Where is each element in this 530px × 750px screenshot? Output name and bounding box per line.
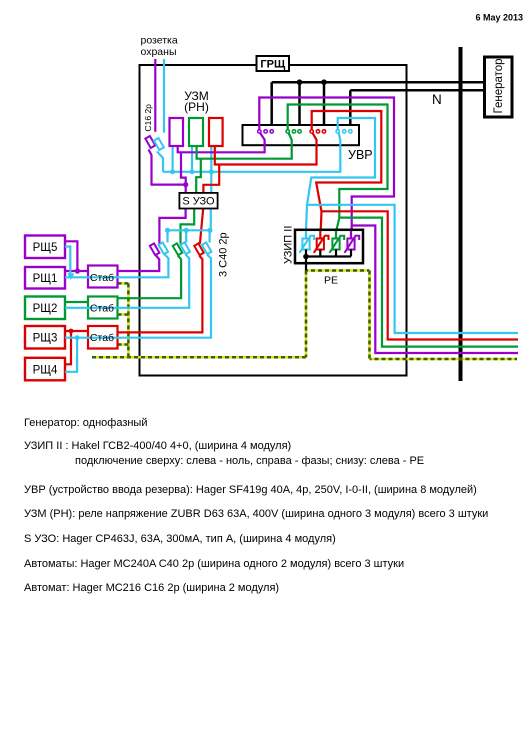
svg-text:6 May 2013: 6 May 2013 (476, 12, 524, 22)
junction dot N bus S УЗО (209, 169, 214, 174)
УВР switch group 2 (green) (286, 124, 301, 146)
wire: УЗИП internal PE bus (306, 255, 351, 257)
varistor 4 (purple) (345, 231, 360, 253)
svg-text:S УЗО: Hager CP463J, 63A, 300м: S УЗО: Hager CP463J, 63A, 300мА, тип A, … (24, 533, 336, 545)
svg-text:Стаб: Стаб (90, 332, 114, 344)
svg-text:Автоматы: Hager MC240A C40 2р: Автоматы: Hager MC240A C40 2р (ширина од… (24, 558, 404, 570)
wire: cyan N bus 2 (166, 229, 211, 231)
wire: green branch to right bundle (339, 218, 518, 347)
svg-text:Генератор: однофазный: Генератор: однофазный (24, 417, 148, 429)
varistor 1 (cyan) (300, 231, 315, 253)
wire: red phase loop УВР top (312, 111, 382, 230)
box S УЗО (179, 193, 217, 209)
wire: S УЗО green output to C40 no.2 (181, 209, 195, 244)
wire: cyan N loop УВР top (306, 118, 375, 230)
wire: varistor1 stub (305, 250, 307, 257)
junction dot N bus2 no.2 (184, 228, 189, 233)
УВР switch group 3 (red) (310, 124, 326, 146)
wire: S УЗО red output to C40 no.3 (200, 209, 203, 244)
svg-text:РЩ4: РЩ4 (33, 364, 58, 376)
wire: PE stub to Стаб1 (118, 282, 129, 285)
box РЩ1 (25, 267, 65, 289)
breaker C40 no.2 cyan pole (180, 242, 190, 254)
wire: S УЗО cyan output to N bus 2 (210, 209, 212, 231)
wire: РЩ3 red to Стаб3 (65, 330, 88, 332)
box Генератор (485, 57, 513, 117)
wire: C40 no.1 cyan out across Стаб1 to РЩ1 (65, 255, 168, 278)
wire: РЩ2 green to Стаб2 (65, 301, 88, 303)
arrow head РЩ5 cyan onto РЩ1 N wire (67, 273, 74, 279)
junction dot N bus УЗМ2 (190, 169, 195, 174)
wire: УЗМ3 N lead and S УЗО N drop (210, 146, 212, 193)
svg-text:УВР: УВР (348, 148, 373, 162)
wire: C40 no.3 red out to Стаб3 (118, 256, 203, 333)
wire: C40 no.2 green out to Стаб2 (118, 256, 182, 299)
wire: РЩ4 cyan feed (65, 338, 77, 372)
wire: black vertical bus L to УВР group3 (323, 82, 326, 129)
box РЩ3 (25, 326, 65, 349)
wire: УЗИП PE exit down (305, 257, 307, 271)
junction dot bus L / group3 (321, 79, 327, 85)
wire: black vertical bus L to УВР group2 (298, 82, 301, 129)
box ГРЩ (257, 56, 290, 71)
wire: red drop to S УЗО (203, 165, 219, 193)
svg-text:РЩ1: РЩ1 (33, 273, 58, 285)
svg-text:УЗИП II: УЗИП II (283, 226, 295, 264)
wire: red УЗМ out to УВР (y164.5) (215, 140, 317, 165)
thick ground electrode line (459, 47, 463, 381)
junction dot РЩ5 purple (75, 268, 80, 273)
breaker C40 no.2 green pole (173, 243, 183, 255)
box РЩ2 (25, 297, 65, 320)
varistor 3 (green) (330, 231, 345, 253)
wire: PE stub to Стаб3 (118, 343, 129, 346)
box РЩ5 (25, 236, 65, 259)
breaker C16 2p cyan pole (154, 138, 164, 150)
main panel enclosure box (140, 65, 407, 376)
breaker C40 no.1 cyan pole (159, 242, 169, 254)
box УВР (243, 125, 360, 145)
wire: розетка охраны purple feeder (154, 59, 156, 132)
wire: N drop to C40 no.1 cyan pole (166, 230, 168, 242)
breaker C40 no.3 red pole (194, 243, 204, 255)
svg-text:розетка: розетка (141, 35, 178, 47)
svg-text:охраны: охраны (141, 46, 177, 58)
svg-text:N: N (432, 92, 442, 107)
wire: УЗМ1 N lead (172, 146, 174, 172)
wire: PE stub to Стаб2 (118, 313, 129, 316)
wire: C40 no.3 cyan out across Стаб3 to РЩ3 (65, 255, 211, 338)
wire: PE yellow-green horizontal left run (92, 356, 306, 359)
wire: purple drop to S УЗО (181, 152, 186, 193)
wire: green УЗМ out to УВР (y158.7) (197, 140, 292, 159)
wire: purple У3М out to УВР (y152) (178, 140, 265, 152)
svg-text:УЗМ (РН): реле напряжение ZUBR: УЗМ (РН): реле напряжение ZUBR D63 63A, … (24, 508, 488, 520)
wire: УЗМ2 N lead (191, 146, 193, 172)
wire: varistor2 stub (319, 250, 321, 257)
relay УЗМ (РН) phase A purple (170, 118, 184, 146)
breaker C40 no.1 purple pole (150, 243, 160, 255)
junction dot N bus2 no.1 (165, 228, 170, 233)
junction dot N bus2 no.3 (208, 228, 213, 233)
junction dot РЩ3 cyan (75, 335, 80, 340)
junction dot РЩ3 red (69, 329, 74, 334)
box РЩ4 (25, 358, 65, 381)
breaker C16 2p purple pole (145, 136, 155, 148)
wire: C16 purple output to S УЗО junction (149, 150, 186, 185)
svg-text:подключение сверху: слева - но: подключение сверху: слева - ноль, справа… (75, 455, 424, 467)
box Стаб3 (88, 326, 118, 349)
varistor 2 (red) (314, 231, 329, 253)
wire: purple branch to right bundle (352, 226, 518, 354)
wire: C40 no.2 cyan out across Стаб2 to РЩ2 (65, 255, 189, 308)
wire: green phase loop УВР top (288, 105, 388, 230)
wire: cyan branch to right bundle (307, 205, 518, 333)
wire: black vertical N to УВР group4 (349, 90, 352, 129)
wire: ГРЩ bus L (black) horizontal to generator (272, 81, 484, 84)
wire: PE bridge top horizontal under УЗИП II (306, 269, 370, 272)
wire: green drop to S УЗО (196, 159, 201, 193)
svg-text:3 С40 2р: 3 С40 2р (218, 232, 230, 277)
wire: PE vertical along Стаб boxes (127, 283, 130, 357)
svg-text:ГРЩ: ГРЩ (260, 59, 286, 71)
svg-text:Стаб: Стаб (90, 303, 114, 315)
wire: РЩ4 red feed (65, 331, 71, 364)
box Стаб1 (88, 266, 118, 288)
wire: cyan N bus above S УЗО (163, 145, 340, 172)
wire: C40 no.1 purple out to Стаб1 (118, 256, 160, 272)
wire: РЩ5 cyan feed (65, 247, 70, 275)
svg-text:Стаб: Стаб (90, 272, 114, 284)
svg-text:S УЗО: S УЗО (182, 196, 215, 208)
wire: purple phase loop УВР top (generator side) (259, 98, 394, 230)
wire: red branch to right bundle (322, 211, 519, 339)
wire: PE right vertical (368, 271, 371, 360)
svg-text:(РН): (РН) (184, 100, 209, 114)
junction dot purple S УЗО input (183, 182, 188, 187)
junction dot bus L / group2 (297, 79, 303, 85)
relay УЗМ (РН) phase B green (189, 118, 203, 146)
wire: varistor4 stub (350, 250, 352, 257)
wire: РЩ1 purple to Стаб1 (65, 270, 88, 272)
svg-text:РЕ: РЕ (324, 275, 338, 287)
wire: PE yellow-green horizontal right run (370, 358, 518, 361)
svg-text:РЩ5: РЩ5 (33, 242, 58, 254)
wire: black vertical bus L to УВР group1 (270, 82, 273, 129)
wire: PE drop from УЗИП II left (305, 271, 308, 358)
svg-text:Автомат: Hager MC216 C16 2р (ш: Автомат: Hager MC216 C16 2р (ширина 2 мо… (24, 582, 279, 594)
wire: розетка охраны cyan feeder (163, 59, 165, 133)
junction dot N bus УЗМ1 (170, 169, 175, 174)
relay УЗМ (РН) phase C red (209, 118, 223, 146)
svg-text:УВР (устройство ввода резерва): УВР (устройство ввода резерва): Hager SF… (24, 484, 477, 496)
svg-text:С16 2р: С16 2р (143, 104, 153, 132)
svg-text:Генератор: Генератор (493, 58, 505, 113)
wire: N drop to C40 no.3 cyan pole (209, 230, 211, 242)
svg-text:РЩ3: РЩ3 (33, 333, 58, 345)
svg-text:РЩ2: РЩ2 (33, 303, 58, 315)
УВР switch group 4 (cyan) (336, 124, 352, 146)
УВР switch group 1 (purple) (258, 124, 274, 146)
wire: РЩ5 purple feed (65, 241, 77, 271)
box УЗИП II (295, 230, 363, 263)
svg-text:УЗИП II : Hakel ГСВ2-400/40 4+: УЗИП II : Hakel ГСВ2-400/40 4+0, (ширина… (24, 440, 291, 452)
wire: S УЗО purple output to C40 no.1 (159, 209, 185, 244)
wire: C16 cyan output to N bus (157, 152, 163, 172)
wire: varistor3 stub (335, 250, 337, 257)
notes text block (24, 417, 488, 594)
wire: generator N (black) horizontal (350, 89, 484, 92)
box Стаб2 (88, 297, 118, 319)
breaker C40 no.3 cyan pole (202, 242, 212, 254)
junction dot УЗИП PE (303, 254, 309, 260)
wire: N drop to C40 no.2 cyan pole (185, 230, 187, 242)
